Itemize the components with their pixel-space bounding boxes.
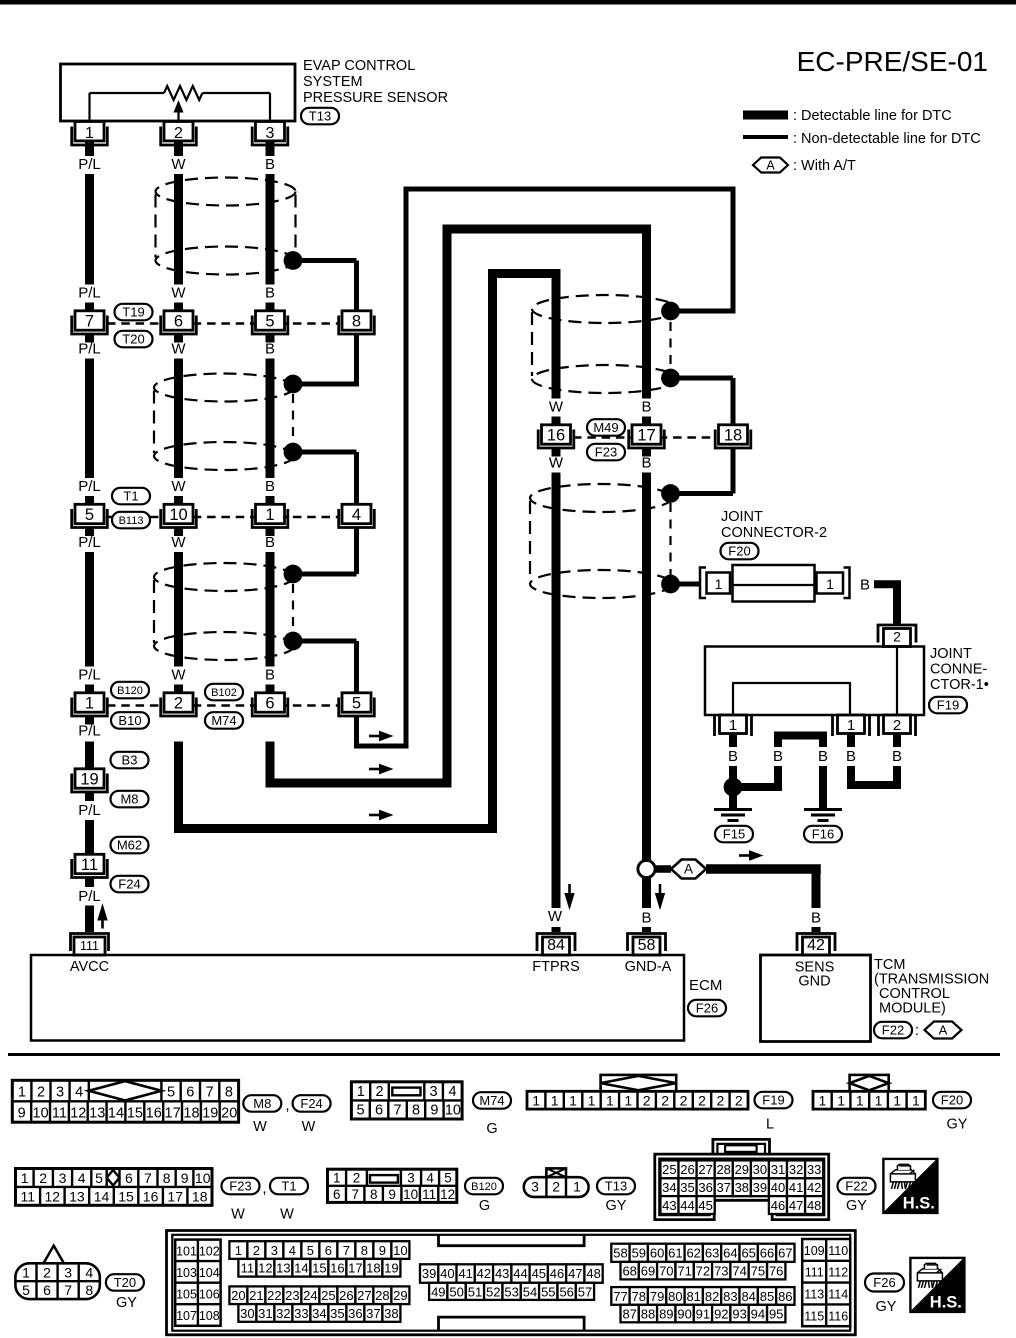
connector face F23/T1 outline xyxy=(16,1169,213,1206)
svg-text:6: 6 xyxy=(325,1243,332,1258)
svg-text:29: 29 xyxy=(735,1162,749,1177)
svg-text:M8: M8 xyxy=(253,1096,271,1111)
link to hexagon A xyxy=(655,865,671,873)
M8/F24 grid cells xyxy=(30,1080,32,1101)
hook1 right vertical xyxy=(731,189,736,314)
svg-text:2: 2 xyxy=(353,1170,361,1185)
svg-text:64: 64 xyxy=(723,1246,737,1261)
svg-text:P/L: P/L xyxy=(78,156,101,173)
svg-text:F19: F19 xyxy=(937,698,959,713)
svg-text:7: 7 xyxy=(351,1187,359,1202)
svg-text:1: 1 xyxy=(235,1243,242,1258)
svg-text::: : xyxy=(915,1022,919,1039)
svg-text:B120: B120 xyxy=(117,685,143,697)
svg-text:4: 4 xyxy=(78,1170,86,1186)
wire W hook3 bottom horizontal xyxy=(174,824,497,833)
connector 11 (M62/F24) xyxy=(75,854,104,873)
pi-link right leg xyxy=(819,732,827,748)
svg-text:49: 49 xyxy=(431,1285,445,1300)
svg-text:10: 10 xyxy=(445,1103,461,1119)
svg-text:85: 85 xyxy=(760,1289,774,1304)
svg-text:106: 106 xyxy=(199,1288,220,1302)
svg-text:13: 13 xyxy=(89,1106,105,1122)
svg-text:35: 35 xyxy=(680,1180,694,1195)
svg-text:1: 1 xyxy=(573,1179,581,1195)
svg-text:FTPRS: FTPRS xyxy=(532,959,580,975)
svg-text:2: 2 xyxy=(253,1243,260,1258)
separator line xyxy=(8,1053,1000,1056)
svg-text:B113: B113 xyxy=(119,515,144,527)
connector T20 oval label xyxy=(106,1274,144,1291)
svg-text:M8: M8 xyxy=(120,792,138,807)
svg-text:JOINT: JOINT xyxy=(930,646,972,662)
svg-text:103: 103 xyxy=(176,1266,197,1280)
svg-text:4: 4 xyxy=(426,1170,434,1185)
svg-text:F20: F20 xyxy=(728,544,750,559)
svg-text:1: 1 xyxy=(893,1092,901,1108)
svg-text:43: 43 xyxy=(662,1198,676,1213)
wire P/L to ECM pin 111 xyxy=(85,906,94,933)
svg-text:F24: F24 xyxy=(300,1096,322,1111)
connector B120 oval xyxy=(111,682,149,699)
hook1 bottom horizontal xyxy=(354,744,409,749)
svg-text:58: 58 xyxy=(638,937,656,954)
svg-text:31: 31 xyxy=(258,1306,272,1321)
connector 5 (T19/T20 pin 5) xyxy=(256,311,285,330)
wire B row4 stub below xyxy=(642,448,651,457)
wire B row2 stub below xyxy=(266,527,275,536)
wire B2 to junction xyxy=(642,473,651,861)
svg-text:T1: T1 xyxy=(281,1179,296,1194)
svg-text:F23: F23 xyxy=(229,1179,251,1194)
svg-text:CTOR-1•: CTOR-1• xyxy=(930,677,989,693)
F26 grid 101-108 xyxy=(175,1240,220,1326)
connector 5 (B102/M74 pin 5) xyxy=(342,693,371,712)
svg-text:94: 94 xyxy=(751,1307,765,1322)
svg-text:13: 13 xyxy=(276,1261,290,1276)
potentiometer wiper arrow xyxy=(177,111,179,121)
svg-text:53: 53 xyxy=(504,1285,518,1300)
ground symbol F16 xyxy=(804,808,842,811)
shield S3 drain to connector 5 xyxy=(293,639,357,644)
svg-text:F15: F15 xyxy=(723,827,745,842)
svg-text:1: 1 xyxy=(357,1084,365,1100)
svg-text:W: W xyxy=(231,1207,245,1223)
svg-text:30: 30 xyxy=(240,1306,254,1321)
row2 dashed link xyxy=(107,516,339,519)
svg-text:1: 1 xyxy=(551,1092,559,1108)
shield S3 bottom drain dot xyxy=(284,632,303,651)
svg-text:44: 44 xyxy=(513,1266,527,1281)
wire B2 top segment xyxy=(642,229,651,399)
svg-text:W: W xyxy=(548,908,563,925)
svg-text:A: A xyxy=(939,1023,948,1038)
svg-text:17: 17 xyxy=(167,1188,183,1204)
svg-text:M49: M49 xyxy=(593,420,618,435)
svg-text:: Detectable line for DTC: : Detectable line for DTC xyxy=(793,108,952,124)
svg-text:2: 2 xyxy=(43,1264,51,1280)
svg-text:39: 39 xyxy=(753,1180,767,1195)
svg-text:91: 91 xyxy=(696,1307,710,1322)
svg-text:15: 15 xyxy=(312,1261,326,1276)
svg-text:21: 21 xyxy=(249,1288,263,1303)
wire W row2 stub above xyxy=(174,496,183,505)
svg-text:69: 69 xyxy=(641,1264,655,1279)
svg-text:47: 47 xyxy=(568,1266,582,1281)
wire B row3 stub above xyxy=(266,685,275,694)
hook2 vertical xyxy=(443,225,452,788)
T20 keyway triangle xyxy=(44,1246,64,1264)
svg-text:43: 43 xyxy=(495,1266,509,1281)
svg-text:W: W xyxy=(171,341,186,358)
svg-text:B: B xyxy=(265,341,275,358)
connector 4 lower stub xyxy=(354,528,359,575)
svg-text:PRESSURE SENSOR: PRESSURE SENSOR xyxy=(303,90,448,106)
connector 16 (M49/F23 pin 16) xyxy=(542,425,571,444)
row3 dashed link xyxy=(107,704,339,707)
svg-text:3: 3 xyxy=(266,125,275,142)
svg-text:25: 25 xyxy=(321,1288,335,1303)
svg-text:80: 80 xyxy=(668,1289,682,1304)
shield R1 bottom drain dot xyxy=(661,369,680,388)
wire B row2 to row3 xyxy=(266,552,275,667)
svg-text:55: 55 xyxy=(541,1285,555,1300)
svg-text:B: B xyxy=(265,285,275,302)
JC-1 bottom pin 2 xyxy=(877,715,880,736)
svg-text:62: 62 xyxy=(686,1246,700,1261)
wire W row2 to row3 xyxy=(174,552,183,667)
svg-text:1: 1 xyxy=(819,1092,827,1108)
wire B2 stub to pin 58 xyxy=(642,927,651,932)
svg-text:65: 65 xyxy=(741,1246,755,1261)
svg-text:W: W xyxy=(171,156,186,173)
F26 grid 109-116 xyxy=(802,1239,850,1326)
svg-text:2: 2 xyxy=(174,694,183,712)
shield S2 drain to connector 4 xyxy=(293,450,357,455)
svg-text:6: 6 xyxy=(125,1170,133,1186)
svg-text:82: 82 xyxy=(705,1289,719,1304)
svg-text:P/L: P/L xyxy=(78,802,101,819)
TCM pin 42 xyxy=(797,934,835,952)
connector M8 oval label xyxy=(243,1095,281,1112)
svg-text:61: 61 xyxy=(668,1246,682,1261)
EVAP control system pressure sensor box xyxy=(61,64,296,121)
svg-text:75: 75 xyxy=(751,1264,765,1279)
H.S. logo (F26) xyxy=(910,1258,964,1312)
svg-text:18: 18 xyxy=(192,1188,208,1204)
svg-text:15: 15 xyxy=(127,1106,143,1122)
svg-text:GND-A: GND-A xyxy=(625,959,672,975)
svg-text:40: 40 xyxy=(771,1180,785,1195)
wire P/L row2 stub below xyxy=(85,527,94,536)
joint connector-1 box xyxy=(705,647,924,716)
svg-text:: With A/T: : With A/T xyxy=(793,158,856,174)
svg-text:B: B xyxy=(265,667,275,684)
F26 pins 11-19 xyxy=(238,1259,256,1277)
svg-text:20: 20 xyxy=(231,1288,245,1303)
svg-text:5: 5 xyxy=(22,1282,30,1298)
svg-text:F19: F19 xyxy=(762,1093,784,1108)
svg-text:GY: GY xyxy=(876,1299,897,1315)
svg-text:7: 7 xyxy=(206,1085,214,1101)
wire W row1 to row2 xyxy=(174,359,183,479)
svg-text:34: 34 xyxy=(662,1180,676,1195)
svg-text:B102: B102 xyxy=(211,687,237,699)
F23/T1 grid cells xyxy=(16,1186,213,1188)
svg-text:11: 11 xyxy=(52,1106,67,1122)
svg-text:10: 10 xyxy=(403,1187,418,1202)
svg-text:44: 44 xyxy=(680,1198,694,1213)
connector M49 oval xyxy=(587,419,625,436)
svg-text:6: 6 xyxy=(174,312,183,330)
wire B below JC-1 pin1R xyxy=(847,734,855,748)
wire B to row1 xyxy=(266,174,275,285)
svg-text:1: 1 xyxy=(569,1092,577,1108)
svg-text:10: 10 xyxy=(169,506,187,524)
svg-text:B: B xyxy=(860,577,870,594)
F20 pin row xyxy=(813,1091,925,1109)
svg-text:93: 93 xyxy=(732,1307,746,1322)
svg-text:11: 11 xyxy=(422,1187,436,1202)
svg-text:A: A xyxy=(766,158,775,172)
svg-text:81: 81 xyxy=(686,1289,700,1304)
svg-text:1: 1 xyxy=(85,125,94,142)
F26 pins 58-67 xyxy=(611,1244,629,1262)
svg-text:P/L: P/L xyxy=(78,534,101,551)
svg-text:9: 9 xyxy=(181,1170,189,1186)
svg-text:3: 3 xyxy=(59,1170,67,1186)
shield cylinder S2 xyxy=(154,374,294,402)
svg-text:,: , xyxy=(285,1097,289,1114)
hexagon A (with A/T) xyxy=(671,860,706,879)
svg-text:B: B xyxy=(728,748,738,765)
svg-text:84: 84 xyxy=(741,1289,755,1304)
page top border bar xyxy=(0,0,1016,5)
svg-text:33: 33 xyxy=(294,1306,308,1321)
potentiometer element xyxy=(90,92,165,94)
svg-text:B: B xyxy=(818,748,828,765)
svg-text:1: 1 xyxy=(85,694,94,712)
svg-text:15: 15 xyxy=(118,1188,134,1204)
wire B row4 stub above xyxy=(642,417,651,426)
svg-text:16: 16 xyxy=(330,1261,344,1276)
svg-text:84: 84 xyxy=(547,937,565,954)
svg-text:26: 26 xyxy=(680,1162,694,1177)
wire P/L sensor stub xyxy=(85,141,94,156)
svg-text:B10: B10 xyxy=(118,713,141,728)
svg-text:9: 9 xyxy=(388,1187,396,1202)
connector face F20 raised key xyxy=(850,1075,889,1091)
svg-text:33: 33 xyxy=(807,1162,821,1177)
svg-text:63: 63 xyxy=(705,1246,719,1261)
svg-text:46: 46 xyxy=(550,1266,564,1281)
svg-text:6: 6 xyxy=(375,1103,383,1119)
connector F24 oval label xyxy=(293,1095,331,1112)
svg-text:8: 8 xyxy=(225,1085,233,1101)
svg-text:1: 1 xyxy=(588,1092,596,1108)
row1 dashed link xyxy=(107,322,339,325)
svg-text:8: 8 xyxy=(352,312,361,330)
svg-text:47: 47 xyxy=(789,1198,803,1213)
F26 pins 77-86 xyxy=(611,1287,629,1305)
sensor pin 1 xyxy=(75,122,104,141)
svg-text:10: 10 xyxy=(393,1243,407,1258)
svg-text:P/L: P/L xyxy=(78,341,101,358)
svg-text:1: 1 xyxy=(847,717,855,734)
F26 pins 1-10 xyxy=(229,1241,247,1259)
svg-text:JOINT: JOINT xyxy=(721,509,763,525)
wire B sensor stub xyxy=(266,141,275,156)
wire W row1 stub below xyxy=(174,334,183,343)
svg-text:38: 38 xyxy=(735,1180,749,1195)
svg-text:5: 5 xyxy=(352,694,361,712)
svg-text:1: 1 xyxy=(715,576,723,592)
svg-text:2: 2 xyxy=(552,1179,560,1195)
ground junction dot xyxy=(724,778,743,797)
svg-text:76: 76 xyxy=(769,1264,783,1279)
svg-text:T19: T19 xyxy=(122,305,144,320)
svg-text:114: 114 xyxy=(828,1288,848,1302)
svg-text:42: 42 xyxy=(807,937,825,954)
svg-text:11: 11 xyxy=(21,1188,36,1204)
connector M8 oval xyxy=(111,791,149,808)
svg-text:GY: GY xyxy=(116,1295,137,1311)
F23/T1 keyway diamond xyxy=(107,1170,120,1185)
svg-text:37: 37 xyxy=(366,1306,380,1321)
svg-text:10: 10 xyxy=(195,1170,211,1186)
svg-text:W: W xyxy=(549,399,564,416)
legend non-detectable line sample xyxy=(743,135,788,139)
svg-text:66: 66 xyxy=(760,1246,774,1261)
svg-text:32: 32 xyxy=(276,1306,290,1321)
svg-text:72: 72 xyxy=(696,1264,710,1279)
shield S3 drain dashed link xyxy=(292,584,294,632)
svg-text:2: 2 xyxy=(39,1170,47,1186)
svg-text:12: 12 xyxy=(258,1261,272,1276)
shield S2 bottom drain dot xyxy=(284,443,303,462)
svg-text:7: 7 xyxy=(85,312,94,330)
shield R2 drain dashed link xyxy=(669,503,671,575)
svg-text:B3: B3 xyxy=(122,753,138,768)
svg-text:1: 1 xyxy=(21,1170,29,1186)
svg-text:F26: F26 xyxy=(873,1275,895,1290)
svg-text:3: 3 xyxy=(430,1084,438,1100)
svg-text:1: 1 xyxy=(333,1170,341,1185)
connector 5 row3 lower stub xyxy=(354,716,359,746)
wire P/L row2 to row3 xyxy=(85,552,94,667)
connector face F19 raised key xyxy=(601,1075,677,1091)
junction circle on B2 xyxy=(638,860,655,877)
shield cylinder S3 xyxy=(154,563,294,591)
svg-text:6: 6 xyxy=(265,694,274,712)
connector B3 oval xyxy=(111,752,149,769)
svg-text:F20: F20 xyxy=(941,1093,963,1108)
svg-text:8: 8 xyxy=(370,1187,378,1202)
connector F19 oval label xyxy=(755,1092,793,1109)
JC-2 body xyxy=(733,565,815,602)
connector M74 oval label xyxy=(473,1092,511,1109)
svg-text:1: 1 xyxy=(606,1092,614,1108)
svg-text:26: 26 xyxy=(339,1288,353,1303)
svg-text:88: 88 xyxy=(641,1307,655,1322)
svg-text:108: 108 xyxy=(199,1309,220,1323)
svg-text:P/L: P/L xyxy=(78,285,101,302)
svg-text:73: 73 xyxy=(714,1264,728,1279)
svg-text:3: 3 xyxy=(271,1243,278,1258)
svg-text:M74: M74 xyxy=(479,1093,504,1108)
wire W2 through shields to ECM xyxy=(552,473,561,909)
svg-text:58: 58 xyxy=(613,1246,627,1261)
JC-1 internal bus bar xyxy=(733,683,850,715)
connector 8 lower stub xyxy=(354,334,359,387)
shield R2 bottom drain dot xyxy=(661,575,680,594)
connector B10 oval xyxy=(111,712,149,729)
svg-text:W: W xyxy=(302,1119,316,1135)
svg-text:3: 3 xyxy=(531,1179,539,1195)
shield cylinder R1 xyxy=(532,295,678,323)
hook1 top horizontal xyxy=(404,187,736,192)
connector 17 (M49/F23 pin 17) xyxy=(632,425,661,444)
JC-1 pin 2 top xyxy=(878,625,916,643)
svg-text:2: 2 xyxy=(643,1092,651,1108)
ECM pin 58 xyxy=(628,934,666,952)
svg-text:5: 5 xyxy=(307,1243,314,1258)
svg-text:B: B xyxy=(265,534,275,551)
F22 top tab xyxy=(713,1139,770,1154)
svg-text:42: 42 xyxy=(477,1266,491,1281)
B120 grid cells xyxy=(328,1185,457,1187)
connector 1 (B120/B10 pin 1) xyxy=(75,693,104,712)
ECM pin 111 xyxy=(71,934,109,952)
wire W row4 stub below xyxy=(552,448,561,457)
svg-text:2: 2 xyxy=(174,125,183,142)
connector 19 (B3/M8) xyxy=(75,769,104,788)
connector B102 oval xyxy=(205,684,243,701)
down arrow at GND-A wire xyxy=(659,884,662,895)
wire B below JC-1 pin2 xyxy=(893,766,901,781)
T13 pin row xyxy=(524,1177,589,1197)
connector F20 oval label xyxy=(933,1092,971,1109)
JC-1 internal divider xyxy=(896,647,898,714)
wire dot to pi-link xyxy=(733,783,782,791)
connector F26 oval (ECM) xyxy=(688,1000,726,1017)
svg-text:28: 28 xyxy=(375,1288,389,1303)
svg-text:13: 13 xyxy=(69,1188,85,1204)
shield cylinder R2 xyxy=(530,484,672,512)
connector face B120 outline xyxy=(328,1169,457,1202)
svg-text:T20: T20 xyxy=(122,332,144,347)
svg-text:5: 5 xyxy=(265,312,274,330)
svg-text:105: 105 xyxy=(176,1288,197,1302)
svg-text:G: G xyxy=(479,1198,490,1214)
wire W below row3 xyxy=(174,742,183,829)
wire B below row3 xyxy=(266,742,275,784)
u-link pin1R to pin2 xyxy=(851,781,897,785)
svg-text:46: 46 xyxy=(771,1198,785,1213)
svg-text:1: 1 xyxy=(912,1092,920,1108)
shield R1 top drain dot xyxy=(661,302,680,321)
svg-text:31: 31 xyxy=(771,1162,785,1177)
wire W row1 stub above xyxy=(174,303,183,312)
svg-text:57: 57 xyxy=(578,1285,592,1300)
svg-text:5: 5 xyxy=(85,506,94,524)
F26 pins 39-48 xyxy=(420,1264,438,1283)
svg-text:P/L: P/L xyxy=(78,478,101,495)
legend hexagon A xyxy=(753,158,788,173)
svg-text:18: 18 xyxy=(366,1261,380,1276)
svg-text:W: W xyxy=(171,478,186,495)
connector M74 oval xyxy=(205,712,243,729)
